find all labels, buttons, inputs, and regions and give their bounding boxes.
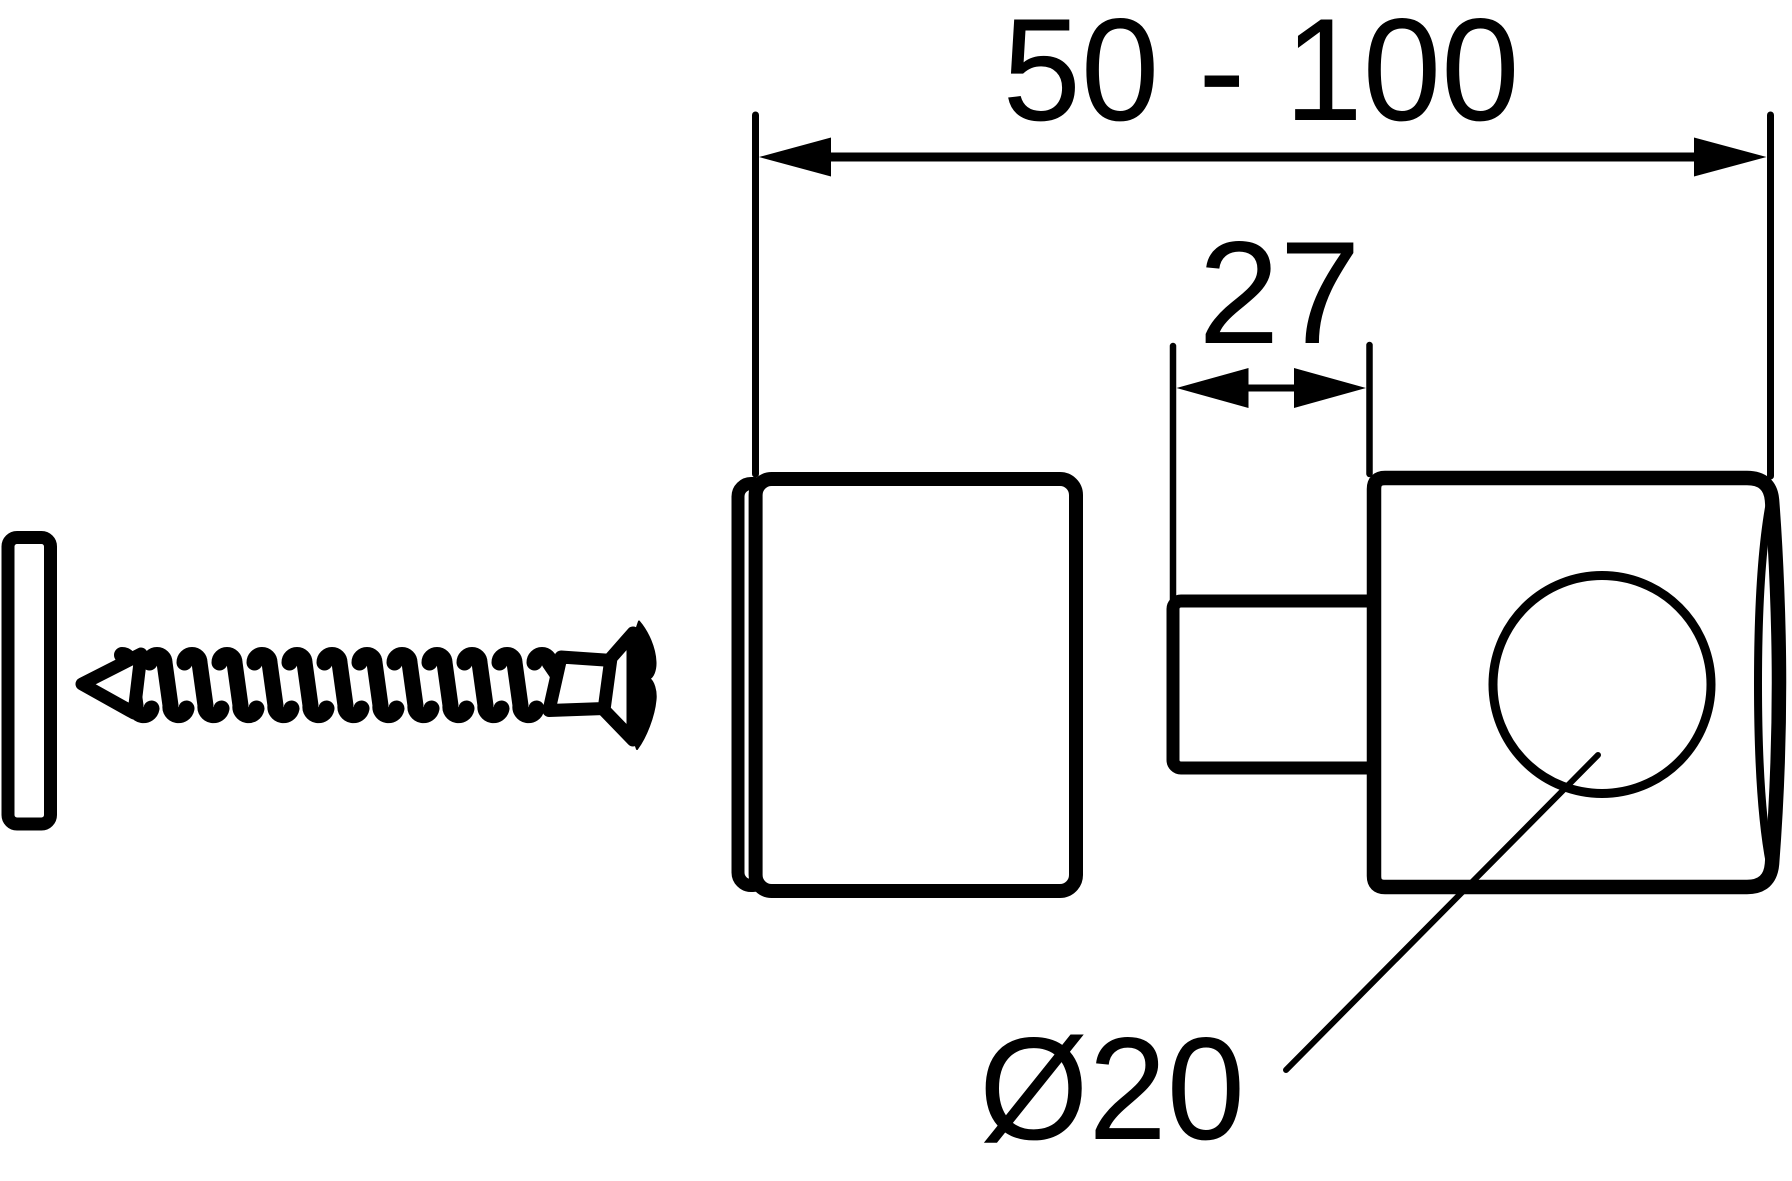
svg-text:Ø20: Ø20 (979, 1007, 1245, 1170)
screw head face (630, 622, 656, 750)
square bracket body (1374, 478, 1779, 887)
stem neck of right bracket (1173, 601, 1378, 768)
svg-text:27: 27 (1198, 211, 1360, 374)
screw shank (549, 657, 612, 711)
cylinder bracket body (756, 479, 1076, 891)
screw thread partial coil behind tip cone (122, 655, 152, 715)
screw tip cone (82, 654, 141, 713)
arrowhead left of 27 dimension (1177, 368, 1249, 408)
barrel face silhouette arc (1758, 502, 1770, 864)
svg-text:50 - 100: 50 - 100 (1003, 0, 1520, 151)
cylinder bracket back flange (738, 484, 766, 886)
arrowhead left of 50-100 dimension (759, 138, 831, 177)
screw thread coils (150, 655, 572, 715)
wall plate (8, 538, 51, 825)
screw head countersunk flare (604, 633, 633, 740)
arrowhead right of 50-100 dimension (1694, 138, 1767, 177)
extension line left of 27 dimension (1170, 346, 1177, 600)
extension line right of 27 dimension (1366, 345, 1373, 474)
extension line right of 50-100 dimension (1767, 115, 1774, 476)
arrowhead right of 27 dimension (1294, 368, 1366, 408)
leader line for Ø20 (1286, 755, 1598, 1070)
knob circle Ø20 (1493, 576, 1711, 794)
extension line left of 50-100 dimension (752, 115, 759, 474)
dimension line 50-100 (828, 153, 1698, 162)
dimension line 27 (1246, 385, 1296, 392)
